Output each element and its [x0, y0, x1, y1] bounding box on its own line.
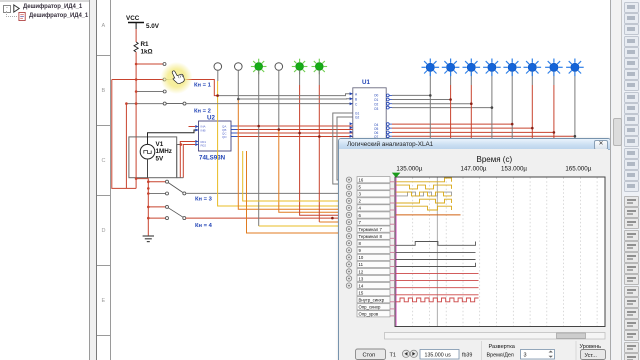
wire probe stem Y4 [491, 72, 493, 85]
svg-text:U2: U2 [207, 115, 215, 122]
wire Kn2 top throw feed [136, 91, 163, 93]
wire probe2 node to U1 pin B [238, 98, 352, 100]
switch Kn4 [166, 205, 186, 219]
svg-text:1MHz: 1MHz [156, 148, 172, 155]
wire Kn3 bottom throw feed [148, 193, 165, 195]
wire probe6 net down [318, 85, 320, 222]
wire probe stem Y8 [574, 72, 576, 85]
ground [143, 236, 154, 242]
wire U1 output 4 [392, 123, 512, 125]
probe Y7 blue [545, 59, 563, 77]
sheet border column [97, 0, 111, 360]
wire probe stem Y3 [470, 72, 472, 85]
wire probe2 stem [237, 70, 239, 99]
hierarchical block boundary around V1 [129, 137, 177, 178]
probe X2 [235, 63, 243, 71]
probe Y8 blue [566, 59, 584, 77]
tree item sheet [18, 12, 27, 21]
switch Kn1 [163, 63, 184, 82]
wire V1 bottom [147, 159, 149, 178]
wire left vertical rail [112, 80, 136, 189]
wire probe6 stem [318, 70, 320, 85]
wire probe stem Y1 [429, 72, 431, 85]
svg-text:11: 11 [359, 262, 364, 267]
wire U2 QC to U1 [237, 132, 353, 134]
probe Y6 blue [524, 59, 542, 77]
svg-text:Кн = 1: Кн = 1 [194, 83, 212, 89]
svg-text:14: 14 [359, 283, 364, 288]
svg-text:1kΩ: 1kΩ [141, 49, 153, 56]
wire probe3 net down [258, 126, 260, 226]
svg-text:Кн = 3: Кн = 3 [195, 197, 213, 203]
svg-text:B: B [355, 98, 357, 102]
wire U2 aux yellow [243, 151, 341, 201]
wire U2 aux orange [247, 151, 342, 233]
wire probe5 stem [299, 70, 301, 85]
wire U2 reset pins [180, 142, 195, 178]
svg-text:T1: T1 [390, 352, 397, 358]
switch Kn2 [163, 90, 186, 105]
wire Kn1 bottom throw feed [112, 79, 163, 81]
wire U1 output 0 [392, 94, 430, 96]
svg-text:135.000 us: 135.000 us [425, 352, 452, 358]
power VCC 5.0V [126, 15, 160, 30]
probe X3 [251, 59, 267, 75]
svg-text:O2: O2 [374, 103, 378, 107]
hand cursor [170, 68, 186, 85]
wire U1 output 5 [392, 127, 532, 129]
probe Y4 blue [483, 59, 501, 77]
svg-text:G2: G2 [355, 116, 359, 120]
probe X1 [214, 63, 222, 71]
tree item root [3, 5, 11, 13]
wire probe3 stem [258, 70, 260, 126]
wire U1 output 2 [392, 103, 471, 105]
wire probe stem Y5 [511, 72, 513, 85]
source V1 1MHz 5V [140, 141, 172, 162]
svg-text:16: 16 [359, 178, 364, 183]
svg-text:Опр_уров: Опр_уров [359, 312, 379, 317]
probe X5 [292, 59, 308, 75]
svg-text:Опр_синхр: Опр_синхр [359, 305, 382, 310]
svg-text:147.000µ: 147.000µ [461, 166, 487, 173]
wire main vertical rail [135, 52, 137, 188]
svg-text:Внутр_синхр: Внутр_синхр [359, 298, 385, 303]
svg-text:74LS93N: 74LS93N [199, 155, 226, 162]
wire Kn2 pole to U1 pin C [186, 103, 353, 105]
wire probe2 net orange down [238, 99, 341, 209]
svg-text:O0: O0 [374, 94, 378, 98]
wire U1 output 6 [392, 131, 554, 133]
wire probe4 net orange down [279, 130, 341, 213]
probe Y5 blue [503, 59, 521, 77]
panel splitter / scroll strip [90, 0, 97, 360]
svg-text:O3: O3 [374, 107, 378, 111]
wire U2 QD to U1 [237, 136, 353, 138]
svg-text:R1: R1 [141, 41, 150, 48]
svg-text:135.000µ: 135.000µ [396, 166, 422, 173]
svg-text:153.000µ: 153.000µ [501, 166, 527, 173]
wire U2 QA to U1 [237, 125, 353, 127]
svg-text:Терминал 8: Терминал 8 [359, 234, 383, 239]
wire Kn3 top throw feed [148, 181, 165, 183]
wire U1 output 3 [392, 107, 492, 109]
instrument XLA1 logic analyzer window [338, 138, 611, 360]
svg-text:Уровень: Уровень [580, 344, 602, 350]
svg-text:10: 10 [359, 255, 364, 260]
svg-text:165.000µ: 165.000µ [565, 166, 591, 173]
svg-text:VCC: VCC [126, 15, 140, 22]
wire block right side to U2 resets [177, 145, 181, 178]
svg-text:V1: V1 [156, 141, 164, 148]
wire U2 left pin stub [189, 126, 196, 128]
svg-text:5.0V: 5.0V [146, 23, 160, 30]
wire Kn1 pole jog to node A [184, 80, 218, 96]
wire U2 QB to U1 [237, 129, 353, 131]
probe Y3 blue [463, 59, 481, 77]
tree connector [6, 11, 8, 17]
svg-text:Развертка: Развертка [489, 344, 516, 350]
resistor R1 1kOhm [134, 41, 153, 56]
svg-text:B: B [102, 88, 106, 94]
svg-text:A: A [102, 23, 106, 29]
wire Kn4 bottom throw feed [148, 217, 165, 219]
svg-text:Терминал 7: Терминал 7 [359, 227, 383, 232]
wire probe5 net red down [300, 85, 341, 215]
right toolbar strip [610, 0, 640, 360]
probe X6 [312, 59, 328, 75]
svg-text:U1: U1 [362, 79, 370, 86]
svg-text:Стоп: Стоп [363, 353, 376, 359]
wire second vertical rail [125, 104, 127, 189]
design tree panel [0, 0, 90, 360]
counter U2 74LS93N [195, 115, 237, 162]
wire bottom rail to ground stem [136, 179, 148, 236]
probe Y1 blue [422, 59, 440, 77]
wire probe1 stem [217, 70, 219, 81]
wire Kn4 pole to analyzer [186, 217, 341, 219]
svg-text:15: 15 [359, 291, 364, 296]
svg-text:Время (с): Время (с) [477, 155, 513, 164]
wire Kn2 bottom throw feed [126, 103, 163, 105]
wire probe4 stem [278, 70, 280, 129]
svg-text:C: C [102, 158, 106, 164]
svg-text:Время/Дел: Время/Дел [487, 353, 514, 359]
click highlight [0, 0, 1, 1]
wire Kn4 top throw feed [148, 206, 165, 208]
wire probe1 net yellow down [218, 81, 341, 206]
wire Kn1 top throw feed [136, 63, 163, 65]
wire probe stem Y2 [450, 72, 452, 85]
probe Y2 blue [442, 59, 460, 77]
wire U1 output 7 [392, 135, 575, 137]
svg-text:13: 13 [359, 276, 364, 281]
svg-text:O1: O1 [374, 98, 378, 102]
decoder U1 [350, 79, 392, 151]
svg-text:INB: INB [201, 129, 206, 133]
wire U1 G1 stub down [333, 113, 353, 184]
wire VCC to R1 [135, 29, 137, 42]
wire node A to U1 pin A [218, 94, 353, 96]
wire probe stem Y6 [531, 72, 533, 85]
svg-text:3: 3 [524, 353, 527, 359]
wire Kn3 pole to analyzer [186, 192, 341, 194]
wire U1 G2 stub down [337, 117, 353, 180]
svg-text:R02: R02 [201, 144, 207, 148]
switch Kn3 [166, 180, 186, 195]
svg-text:fb39: fb39 [462, 352, 472, 358]
wire U1 output 1 [392, 99, 451, 101]
svg-text:Кн = 4: Кн = 4 [195, 223, 213, 229]
svg-text:D: D [102, 228, 106, 234]
svg-text:E: E [102, 298, 106, 304]
probe X4 [275, 63, 283, 71]
wire V1 top to U2 [148, 130, 199, 144]
svg-text:12: 12 [359, 269, 364, 274]
svg-text:Уст...: Уст... [585, 353, 598, 359]
svg-text:5V: 5V [156, 155, 165, 162]
wire probe stem Y7 [553, 72, 555, 85]
